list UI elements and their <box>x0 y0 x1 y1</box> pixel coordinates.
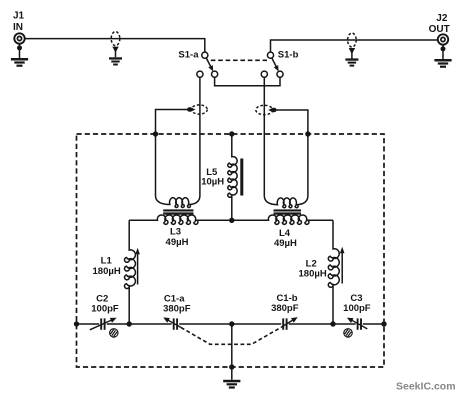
svg-text:J2: J2 <box>436 13 448 24</box>
connector J2 <box>438 34 448 44</box>
feedthrough capacitor left compartment wall <box>187 105 207 114</box>
svg-text:10µH: 10µH <box>201 177 224 188</box>
label L5 10uH <box>201 167 224 188</box>
svg-text:180µH: 180µH <box>93 266 121 277</box>
svg-text:180µH: 180µH <box>299 269 327 280</box>
junction node L3 L4 L5 <box>229 218 234 223</box>
trimmer symbol C2 <box>110 329 118 337</box>
transformer T1 core <box>163 209 193 214</box>
wire J1 shell to ground <box>17 43 22 58</box>
wire J1 to S1-a <box>24 39 204 53</box>
label L2 180uH <box>299 258 327 279</box>
wire right feedthrough to T2 primary right <box>274 110 308 196</box>
wire left feedthrough to T1 primary left <box>156 110 190 197</box>
svg-text:SeekIC.com: SeekIC.com <box>396 380 456 392</box>
label L1 180uH <box>93 255 121 277</box>
svg-text:380pF: 380pF <box>163 303 191 314</box>
svg-text:100pF: 100pF <box>343 303 371 314</box>
L5 core bar <box>240 159 243 196</box>
L1 adjustable arrow <box>135 248 140 285</box>
transformer T2 core <box>274 209 302 214</box>
junction node center of bus <box>229 321 234 326</box>
connector J1 <box>14 33 24 43</box>
feedthrough capacitor at input <box>111 32 120 58</box>
junction node C2 L1 <box>127 321 132 326</box>
junction node C1-b L2 <box>330 321 335 326</box>
trimmer symbol C3 <box>344 329 352 337</box>
ground at bottom center <box>223 380 240 389</box>
inductor L2 <box>328 220 339 324</box>
capacitor C3 <box>358 318 361 329</box>
feedthrough capacitor right compartment wall <box>256 105 277 114</box>
shield enclosure (dashed box) <box>77 134 385 367</box>
switch S1-b <box>261 52 283 77</box>
L2 adjustable arrow <box>340 247 345 284</box>
junction node bus left shield <box>74 321 79 326</box>
junction node left wire on shield <box>153 131 158 136</box>
switch S1-a <box>197 52 218 77</box>
label L4 49uH <box>274 228 297 249</box>
label C2 100pF <box>91 293 119 314</box>
svg-text:L3: L3 <box>170 226 181 237</box>
inductor L4 (T2 secondary) <box>232 215 333 224</box>
label C1-a 380pF <box>163 293 191 314</box>
svg-text:380pF: 380pF <box>271 303 299 314</box>
junction node bus right shield <box>381 321 386 326</box>
capacitor C1-a <box>174 318 177 329</box>
svg-text:OUT: OUT <box>429 24 450 35</box>
svg-text:J1: J1 <box>13 10 25 21</box>
label J2 OUT <box>429 13 450 35</box>
label C1-b 380pF <box>271 293 299 314</box>
junction node right wire on shield <box>305 131 310 136</box>
junction node L5 top on shield <box>229 131 234 136</box>
transformer T2 primary winding <box>264 196 308 208</box>
ground at J2 <box>434 59 451 68</box>
ground at input feedthrough <box>109 57 122 65</box>
ground at J1 <box>11 58 28 67</box>
label S1-b <box>278 50 299 61</box>
capacitor C2 <box>101 318 104 329</box>
wire bottom bus segments <box>77 323 385 325</box>
wire J2 shell to ground <box>441 44 446 59</box>
svg-text:S1-b: S1-b <box>278 50 299 61</box>
feedthrough capacitor at output <box>348 33 357 59</box>
svg-text:IN: IN <box>13 22 23 33</box>
label C3 100pF <box>343 293 371 314</box>
transformer T1 primary winding <box>156 196 200 207</box>
junction node on shield bottom <box>229 364 234 369</box>
inductor L1 <box>125 220 136 324</box>
svg-text:S1-a: S1-a <box>178 50 199 61</box>
svg-text:49µH: 49µH <box>274 238 297 249</box>
svg-text:49µH: 49µH <box>166 237 189 248</box>
bypass wire between switch contacts <box>215 77 280 86</box>
label J1 IN <box>13 10 25 33</box>
dashed gang link S1-a to S1-b <box>211 59 267 61</box>
label S1-a <box>178 50 199 61</box>
svg-text:100pF: 100pF <box>91 303 119 314</box>
dashed gang link C1-a to C1-b <box>181 328 281 345</box>
label L3 49uH <box>166 226 189 248</box>
inductor L3 (T1 secondary) <box>129 215 232 224</box>
wire center to ground <box>231 324 233 380</box>
ground at output feedthrough <box>345 58 358 66</box>
inductor L5 <box>228 134 237 220</box>
wire S1-b contact to T2 primary left <box>263 77 265 196</box>
svg-text:L1: L1 <box>101 255 113 266</box>
wire S1-a contact to T1 primary right <box>199 77 201 196</box>
capacitor C1-b <box>283 318 286 329</box>
wire J2 to S1-b <box>271 40 439 52</box>
